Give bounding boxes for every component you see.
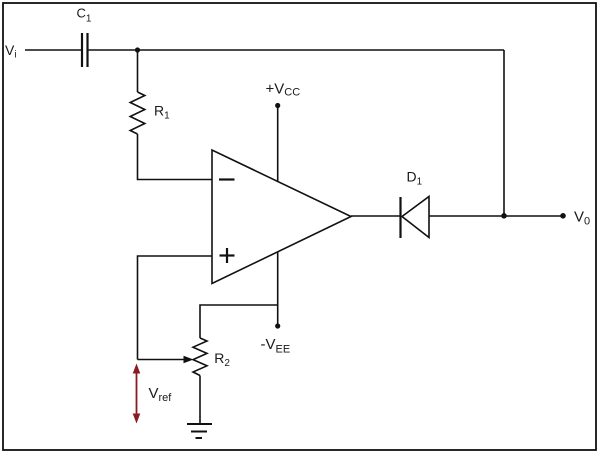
wire R2 to ground xyxy=(199,376,201,425)
node junction at C1/R1 xyxy=(135,47,140,52)
resistor R1 xyxy=(130,92,145,134)
wire Vi input xyxy=(25,49,81,51)
svg-text:R2: R2 xyxy=(214,350,230,369)
node feedback junction xyxy=(501,213,507,219)
wire R1 to inverting input xyxy=(138,134,212,180)
node output terminal xyxy=(560,213,566,219)
wire C1 to feedback corner xyxy=(89,49,505,51)
wire feedback vertical xyxy=(503,50,505,216)
svg-text:V0: V0 xyxy=(574,209,590,228)
svg-text:+VCC: +VCC xyxy=(266,81,301,99)
wire noninverting input xyxy=(138,256,212,360)
wire wiper arm xyxy=(138,359,186,361)
capacitor C1 xyxy=(82,33,88,67)
svg-text:Vi: Vi xyxy=(5,42,17,61)
op-amp plus sign xyxy=(220,248,235,263)
wire R2 top branch xyxy=(200,305,278,338)
node VCC terminal xyxy=(275,103,280,108)
wire diode to output xyxy=(429,215,563,217)
ground xyxy=(187,424,212,438)
svg-text:Vref: Vref xyxy=(149,385,173,404)
node VEE terminal xyxy=(275,323,280,328)
wire op-amp to VEE terminal xyxy=(277,252,279,327)
svg-text:R1: R1 xyxy=(154,103,170,122)
op-amp minus sign xyxy=(219,178,235,180)
op-amp U1 xyxy=(212,150,351,284)
diode D1 xyxy=(401,197,430,239)
svg-text:C1: C1 xyxy=(77,6,92,25)
svg-text:D1: D1 xyxy=(407,168,423,187)
wire node to R1 xyxy=(137,50,139,92)
wire op-amp output to diode xyxy=(351,215,401,217)
svg-text:-VEE: -VEE xyxy=(261,336,291,356)
wiper arrowhead xyxy=(184,356,194,363)
potentiometer R2 xyxy=(193,338,207,376)
Vref double arrow xyxy=(133,364,141,424)
wire VCC to op-amp xyxy=(277,106,279,182)
